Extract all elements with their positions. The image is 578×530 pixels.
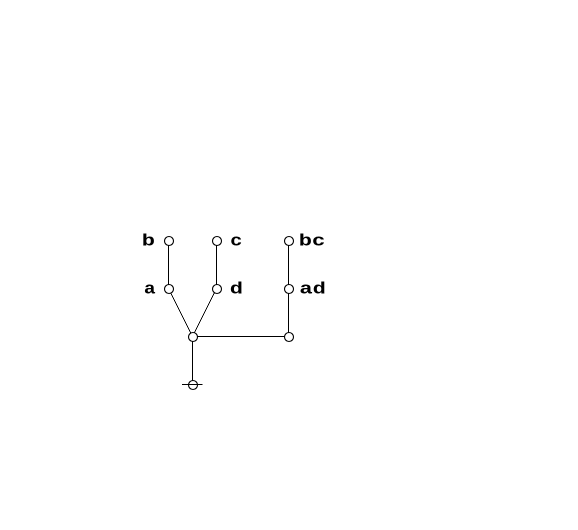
ground bar <box>182 384 203 386</box>
label bc <box>299 232 326 251</box>
node b <box>165 237 174 246</box>
node d <box>213 285 222 294</box>
wire a to junction <box>169 289 193 337</box>
wire b to a <box>168 241 170 289</box>
svg-text:bc: bc <box>299 232 326 251</box>
wire c to d <box>216 241 218 289</box>
wire ad to right node <box>288 289 290 337</box>
right node <box>285 333 294 342</box>
wire junction to ground <box>192 337 194 385</box>
wire junction to right node <box>193 336 289 338</box>
wire d to junction <box>193 289 217 337</box>
label d <box>230 280 243 299</box>
svg-text:ad: ad <box>299 280 326 299</box>
node a <box>165 285 174 294</box>
svg-text:d: d <box>230 280 243 299</box>
wire bc to ad <box>288 241 290 289</box>
label a <box>144 280 156 299</box>
label b <box>142 232 155 251</box>
label c <box>230 231 242 251</box>
svg-text:b: b <box>142 232 155 251</box>
node c <box>213 237 222 246</box>
label ad <box>299 280 326 299</box>
node ad <box>285 285 294 294</box>
junction node <box>189 333 198 342</box>
svg-text:c: c <box>230 231 242 251</box>
ground node <box>189 381 198 390</box>
svg-text:a: a <box>144 280 156 299</box>
node bc <box>285 237 294 246</box>
